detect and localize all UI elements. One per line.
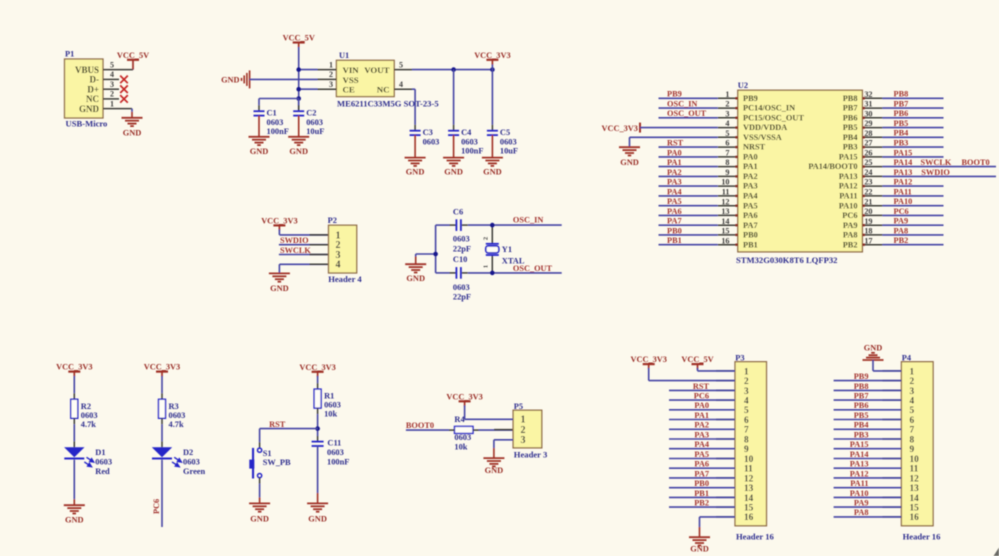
svg-text:0603: 0603 xyxy=(500,137,517,146)
svg-text:14: 14 xyxy=(910,494,920,504)
svg-text:PB8: PB8 xyxy=(843,94,858,103)
svg-text:NC: NC xyxy=(377,85,390,95)
svg-text:U2: U2 xyxy=(738,81,748,90)
svg-text:PC6: PC6 xyxy=(694,392,709,401)
svg-text:PA1: PA1 xyxy=(694,411,709,420)
svg-text:PB9: PB9 xyxy=(743,94,758,103)
svg-text:PA7: PA7 xyxy=(694,469,709,478)
svg-text:PA3: PA3 xyxy=(667,178,682,187)
svg-text:PA10: PA10 xyxy=(850,489,869,498)
svg-text:10k: 10k xyxy=(454,443,467,452)
svg-text:Header 16: Header 16 xyxy=(903,531,941,541)
svg-text:0603: 0603 xyxy=(306,118,323,127)
svg-text:2: 2 xyxy=(483,237,490,240)
svg-text:PB1: PB1 xyxy=(694,489,709,498)
svg-text:16: 16 xyxy=(910,513,920,523)
svg-text:P3: P3 xyxy=(735,354,744,363)
svg-text:PA0: PA0 xyxy=(743,153,758,162)
svg-text:SWDIO: SWDIO xyxy=(921,168,950,177)
svg-text:PB3: PB3 xyxy=(894,139,909,148)
svg-text:VOUT: VOUT xyxy=(364,65,389,75)
svg-text:PA14: PA14 xyxy=(894,158,913,167)
svg-text:PB8: PB8 xyxy=(854,382,869,391)
svg-text:9: 9 xyxy=(910,445,915,455)
svg-text:PA11: PA11 xyxy=(894,187,912,196)
svg-text:6: 6 xyxy=(910,416,915,426)
svg-text:PB9: PB9 xyxy=(854,372,869,381)
svg-text:CE: CE xyxy=(343,85,355,95)
svg-text:10uF: 10uF xyxy=(500,147,518,156)
svg-text:15: 15 xyxy=(744,504,754,514)
svg-text:2: 2 xyxy=(329,70,333,79)
svg-text:PA6: PA6 xyxy=(667,207,682,216)
svg-text:0603: 0603 xyxy=(183,457,200,466)
svg-text:PB3: PB3 xyxy=(843,143,858,152)
svg-text:VBUS: VBUS xyxy=(75,65,99,75)
svg-text:PC6: PC6 xyxy=(152,499,161,514)
svg-text:C5: C5 xyxy=(500,128,510,137)
svg-text:GND: GND xyxy=(864,343,882,352)
svg-text:7: 7 xyxy=(744,426,749,436)
svg-text:4: 4 xyxy=(910,397,915,407)
svg-text:0603: 0603 xyxy=(95,457,112,466)
svg-text:P2: P2 xyxy=(328,216,337,225)
svg-text:100nF: 100nF xyxy=(267,127,289,136)
svg-text:C4: C4 xyxy=(461,128,472,137)
svg-text:R2: R2 xyxy=(81,402,91,411)
svg-text:12: 12 xyxy=(721,197,729,206)
svg-text:OSC_IN: OSC_IN xyxy=(513,216,543,225)
svg-text:21: 21 xyxy=(864,197,872,206)
svg-text:Green: Green xyxy=(183,467,206,476)
svg-text:C2: C2 xyxy=(306,108,316,117)
svg-text:30: 30 xyxy=(864,109,872,118)
svg-text:20: 20 xyxy=(864,207,872,216)
svg-text:Header 16: Header 16 xyxy=(736,531,774,541)
svg-text:PA13: PA13 xyxy=(839,172,858,181)
svg-text:22pF: 22pF xyxy=(453,292,471,301)
svg-text:PA1: PA1 xyxy=(667,158,682,167)
svg-text:VCC_3V3: VCC_3V3 xyxy=(56,363,92,372)
svg-text:GND: GND xyxy=(270,284,289,293)
svg-text:0603: 0603 xyxy=(453,283,470,292)
svg-text:PA4: PA4 xyxy=(743,192,758,201)
svg-text:GND: GND xyxy=(308,514,327,523)
svg-text:13: 13 xyxy=(744,484,754,494)
svg-text:1: 1 xyxy=(744,367,749,377)
svg-text:2: 2 xyxy=(744,377,749,387)
svg-text:BOOT0: BOOT0 xyxy=(406,421,434,430)
svg-text:GND: GND xyxy=(221,76,239,85)
svg-text:24: 24 xyxy=(864,168,872,177)
svg-text:GND: GND xyxy=(406,168,425,177)
svg-text:GND: GND xyxy=(483,168,502,177)
svg-text:7: 7 xyxy=(910,426,915,436)
svg-text:9: 9 xyxy=(744,445,749,455)
svg-text:PA12: PA12 xyxy=(839,182,858,191)
svg-text:P4: P4 xyxy=(902,354,912,363)
svg-text:6: 6 xyxy=(725,139,729,148)
svg-text:3: 3 xyxy=(521,435,526,446)
svg-text:PB9: PB9 xyxy=(667,90,682,99)
svg-text:SWDIO: SWDIO xyxy=(280,236,309,245)
svg-text:29: 29 xyxy=(864,119,872,128)
svg-text:13: 13 xyxy=(910,484,920,494)
svg-text:0603: 0603 xyxy=(423,137,440,146)
svg-text:PA7: PA7 xyxy=(667,217,682,226)
svg-text:1: 1 xyxy=(110,99,114,108)
svg-text:4: 4 xyxy=(336,260,341,271)
svg-text:PA12: PA12 xyxy=(850,469,869,478)
svg-text:Y1: Y1 xyxy=(502,245,512,254)
svg-text:4: 4 xyxy=(744,397,749,407)
svg-text:1: 1 xyxy=(483,265,490,268)
svg-text:PB4: PB4 xyxy=(843,133,858,142)
svg-text:23: 23 xyxy=(864,178,872,187)
svg-text:GND: GND xyxy=(406,274,425,283)
svg-text:PA6: PA6 xyxy=(743,211,758,220)
svg-text:10: 10 xyxy=(721,178,729,187)
svg-text:PA3: PA3 xyxy=(694,430,709,439)
svg-text:R4: R4 xyxy=(454,415,465,424)
svg-text:4: 4 xyxy=(725,119,729,128)
svg-text:2: 2 xyxy=(725,100,729,109)
svg-text:11: 11 xyxy=(910,465,919,475)
svg-text:0603: 0603 xyxy=(453,234,470,243)
svg-text:GND: GND xyxy=(123,128,142,137)
svg-text:16: 16 xyxy=(721,236,729,245)
svg-text:D1: D1 xyxy=(95,448,105,457)
svg-text:9: 9 xyxy=(725,168,729,177)
svg-text:Header 3: Header 3 xyxy=(514,450,548,460)
svg-text:31: 31 xyxy=(864,100,872,109)
svg-text:S1: S1 xyxy=(263,449,272,458)
svg-text:3: 3 xyxy=(110,80,114,89)
svg-text:4.7k: 4.7k xyxy=(81,420,96,429)
svg-text:PA2: PA2 xyxy=(667,168,682,177)
svg-text:VCC_3V3: VCC_3V3 xyxy=(446,392,482,401)
svg-text:17: 17 xyxy=(864,236,872,245)
svg-text:12: 12 xyxy=(744,474,754,484)
svg-text:PA8: PA8 xyxy=(894,226,909,235)
svg-text:PA9: PA9 xyxy=(843,221,858,230)
svg-text:PA8: PA8 xyxy=(854,508,869,517)
svg-text:12: 12 xyxy=(910,474,920,484)
svg-text:SWCLK: SWCLK xyxy=(280,246,311,255)
svg-text:PA2: PA2 xyxy=(694,421,709,430)
svg-text:Red: Red xyxy=(95,467,110,476)
svg-text:PB2: PB2 xyxy=(843,240,858,249)
svg-text:VCC_3V3: VCC_3V3 xyxy=(602,124,638,133)
svg-text:10: 10 xyxy=(744,455,754,465)
svg-text:GND: GND xyxy=(444,168,463,177)
svg-text:VCC_5V: VCC_5V xyxy=(283,34,315,43)
svg-text:10k: 10k xyxy=(324,410,337,419)
svg-text:PA3: PA3 xyxy=(743,182,758,191)
svg-text:0603: 0603 xyxy=(169,411,186,420)
svg-text:C11: C11 xyxy=(327,438,341,447)
svg-text:25: 25 xyxy=(864,158,872,167)
svg-text:PA15: PA15 xyxy=(839,153,858,162)
svg-text:SW_PB: SW_PB xyxy=(263,458,291,467)
svg-text:BOOT0: BOOT0 xyxy=(962,158,990,167)
svg-text:PA5: PA5 xyxy=(694,450,709,459)
svg-text:OSC_OUT: OSC_OUT xyxy=(513,264,553,273)
svg-text:3: 3 xyxy=(910,387,915,397)
svg-text:0603: 0603 xyxy=(81,411,98,420)
svg-text:PA11: PA11 xyxy=(850,479,868,488)
svg-text:19: 19 xyxy=(864,217,872,226)
svg-text:2: 2 xyxy=(910,377,915,387)
svg-text:6: 6 xyxy=(744,416,749,426)
svg-text:SWCLK: SWCLK xyxy=(921,158,952,167)
svg-text:PC6: PC6 xyxy=(842,211,857,220)
svg-text:PB4: PB4 xyxy=(854,421,869,430)
svg-text:PA11: PA11 xyxy=(839,192,857,201)
svg-text:C3: C3 xyxy=(423,128,433,137)
svg-text:PA15: PA15 xyxy=(850,440,869,449)
svg-text:GND: GND xyxy=(250,514,269,523)
svg-text:PB0: PB0 xyxy=(743,231,758,240)
svg-text:5: 5 xyxy=(399,60,403,69)
svg-text:26: 26 xyxy=(864,149,872,158)
svg-text:8: 8 xyxy=(725,158,729,167)
svg-text:OSC_IN: OSC_IN xyxy=(667,100,697,109)
svg-text:0603: 0603 xyxy=(327,448,344,457)
svg-text:PB0: PB0 xyxy=(667,226,682,235)
svg-text:C6: C6 xyxy=(453,208,463,217)
svg-text:VCC_3V3: VCC_3V3 xyxy=(474,51,510,60)
svg-text:RST: RST xyxy=(269,420,286,429)
svg-text:PC15/OSC_OUT: PC15/OSC_OUT xyxy=(743,113,804,122)
svg-text:100nF: 100nF xyxy=(461,147,483,156)
svg-text:PA5: PA5 xyxy=(667,197,682,206)
svg-text:0603: 0603 xyxy=(461,137,478,146)
svg-text:GND: GND xyxy=(690,545,709,554)
svg-text:VDD/VDDA: VDD/VDDA xyxy=(743,123,787,132)
svg-text:PA6: PA6 xyxy=(694,460,709,469)
svg-text:PB6: PB6 xyxy=(894,109,909,118)
svg-text:15: 15 xyxy=(721,227,729,236)
svg-text:PB8: PB8 xyxy=(894,90,909,99)
svg-text:2: 2 xyxy=(110,90,114,99)
svg-text:VCC_3V3: VCC_3V3 xyxy=(144,363,180,372)
svg-text:11: 11 xyxy=(744,465,753,475)
svg-text:PA7: PA7 xyxy=(743,221,758,230)
svg-text:Header 4: Header 4 xyxy=(328,274,362,284)
svg-text:1: 1 xyxy=(910,367,915,377)
svg-text:10uF: 10uF xyxy=(306,127,324,136)
svg-text:27: 27 xyxy=(864,139,872,148)
svg-text:PA12: PA12 xyxy=(894,178,913,187)
svg-text:PB2: PB2 xyxy=(694,499,709,508)
svg-text:PB5: PB5 xyxy=(854,411,869,420)
svg-text:PC6: PC6 xyxy=(894,207,909,216)
svg-text:PA5: PA5 xyxy=(743,201,758,210)
svg-text:5: 5 xyxy=(110,60,114,69)
svg-text:16: 16 xyxy=(744,513,754,523)
svg-text:P5: P5 xyxy=(514,402,523,411)
svg-text:ME6211C33M5G SOT-23-5: ME6211C33M5G SOT-23-5 xyxy=(337,98,439,108)
svg-text:1: 1 xyxy=(725,90,729,99)
svg-text:C1: C1 xyxy=(267,108,277,117)
svg-text:PA10: PA10 xyxy=(839,201,858,210)
svg-text:PA8: PA8 xyxy=(843,231,858,240)
svg-text:1: 1 xyxy=(329,60,333,69)
svg-text:OSC_OUT: OSC_OUT xyxy=(667,109,707,118)
svg-text:PB0: PB0 xyxy=(694,479,709,488)
svg-text:PA15: PA15 xyxy=(894,148,913,157)
svg-text:GND: GND xyxy=(485,466,504,475)
svg-text:PB1: PB1 xyxy=(667,236,682,245)
svg-text:NRST: NRST xyxy=(743,143,766,152)
svg-text:U1: U1 xyxy=(339,51,349,60)
svg-text:D2: D2 xyxy=(183,448,193,457)
svg-text:PC14/OSC_IN: PC14/OSC_IN xyxy=(743,104,795,113)
svg-text:100nF: 100nF xyxy=(327,458,349,467)
svg-text:NC: NC xyxy=(86,94,99,104)
svg-text:GND: GND xyxy=(289,147,308,156)
svg-text:11: 11 xyxy=(722,188,730,197)
svg-text:0603: 0603 xyxy=(324,401,341,410)
svg-text:PB6: PB6 xyxy=(854,401,869,410)
svg-text:USB-Micro: USB-Micro xyxy=(66,119,108,129)
svg-text:PB2: PB2 xyxy=(894,236,909,245)
svg-text:PB7: PB7 xyxy=(843,104,858,113)
svg-text:PB7: PB7 xyxy=(894,100,909,109)
svg-text:18: 18 xyxy=(864,227,872,236)
svg-text:PA4: PA4 xyxy=(667,187,682,196)
svg-text:VCC_3V3: VCC_3V3 xyxy=(261,216,297,225)
svg-text:PA0: PA0 xyxy=(694,401,709,410)
svg-text:PA13: PA13 xyxy=(894,168,913,177)
svg-text:8: 8 xyxy=(910,435,915,445)
svg-text:4: 4 xyxy=(399,80,403,89)
svg-text:PA2: PA2 xyxy=(743,172,758,181)
svg-text:3: 3 xyxy=(329,80,333,89)
svg-text:5: 5 xyxy=(910,406,915,416)
svg-text:PA14/BOOT0: PA14/BOOT0 xyxy=(808,162,857,171)
svg-text:4: 4 xyxy=(110,70,114,79)
svg-text:PB5: PB5 xyxy=(894,119,909,128)
svg-text:22pF: 22pF xyxy=(453,245,471,254)
svg-text:PB5: PB5 xyxy=(843,123,858,132)
svg-text:0603: 0603 xyxy=(454,433,471,442)
svg-text:3: 3 xyxy=(725,109,729,118)
svg-text:D-: D- xyxy=(90,75,100,85)
svg-text:VCC_3V3: VCC_3V3 xyxy=(630,355,666,364)
svg-text:PA4: PA4 xyxy=(694,440,709,449)
svg-text:GND: GND xyxy=(65,516,84,525)
svg-text:VSS: VSS xyxy=(343,75,359,85)
svg-text:P1: P1 xyxy=(65,50,74,59)
svg-text:VCC_5V: VCC_5V xyxy=(117,51,149,60)
svg-text:8: 8 xyxy=(744,435,749,445)
svg-text:PA9: PA9 xyxy=(894,217,909,226)
svg-text:0603: 0603 xyxy=(267,118,284,127)
svg-text:PB1: PB1 xyxy=(743,240,758,249)
svg-text:GND: GND xyxy=(79,104,100,114)
svg-text:GND: GND xyxy=(250,147,269,156)
svg-text:VCC_3V3: VCC_3V3 xyxy=(299,363,335,372)
svg-text:STM32G030K8T6 LQFP32: STM32G030K8T6 LQFP32 xyxy=(736,255,837,265)
svg-text:5: 5 xyxy=(744,406,749,416)
svg-text:D+: D+ xyxy=(87,84,99,94)
svg-text:22: 22 xyxy=(864,188,872,197)
svg-text:RST: RST xyxy=(693,382,710,391)
svg-text:5: 5 xyxy=(725,129,729,138)
svg-text:7: 7 xyxy=(725,149,729,158)
svg-text:C10: C10 xyxy=(453,255,467,264)
svg-text:GND: GND xyxy=(620,158,639,167)
svg-text:14: 14 xyxy=(744,494,754,504)
svg-text:R3: R3 xyxy=(169,402,179,411)
svg-text:VSS/VSSA: VSS/VSSA xyxy=(743,133,782,142)
svg-text:PA1: PA1 xyxy=(743,162,758,171)
svg-text:PA13: PA13 xyxy=(850,460,869,469)
svg-text:PB7: PB7 xyxy=(854,392,869,401)
svg-text:VCC_5V: VCC_5V xyxy=(681,355,713,364)
svg-text:14: 14 xyxy=(721,217,729,226)
svg-text:PA10: PA10 xyxy=(894,197,913,206)
svg-text:PB3: PB3 xyxy=(854,430,869,439)
svg-text:32: 32 xyxy=(864,90,872,99)
svg-text:PA0: PA0 xyxy=(667,148,682,157)
svg-text:PA14: PA14 xyxy=(850,450,869,459)
svg-text:R1: R1 xyxy=(324,392,334,401)
svg-text:PB6: PB6 xyxy=(843,113,858,122)
svg-text:13: 13 xyxy=(721,207,729,216)
svg-text:PA9: PA9 xyxy=(854,499,869,508)
svg-text:10: 10 xyxy=(910,455,920,465)
svg-text:4.7k: 4.7k xyxy=(169,420,184,429)
svg-text:15: 15 xyxy=(910,504,920,514)
svg-text:RST: RST xyxy=(667,139,684,148)
svg-text:VIN: VIN xyxy=(343,65,360,75)
svg-text:PB4: PB4 xyxy=(894,129,909,138)
svg-text:28: 28 xyxy=(864,129,872,138)
svg-text:3: 3 xyxy=(744,387,749,397)
